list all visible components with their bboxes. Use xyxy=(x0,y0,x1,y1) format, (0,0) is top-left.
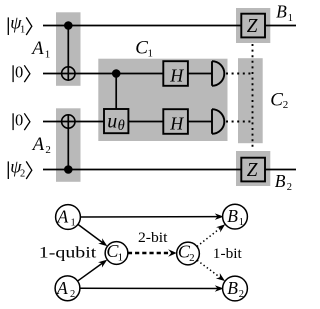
svg-text:0: 0 xyxy=(15,110,23,129)
svg-text:θ: θ xyxy=(118,118,125,134)
CNOT A1: vertical wire xyxy=(67,26,69,81)
svg-text:2: 2 xyxy=(70,289,75,300)
measurement q3 xyxy=(212,109,224,134)
svg-text:2: 2 xyxy=(45,144,51,156)
label B1 xyxy=(276,1,293,24)
controlled-u: control dot q2 xyxy=(112,69,121,78)
wire q3 xyxy=(43,121,212,123)
CNOT A2: target q3 xyxy=(62,115,75,128)
edge A1->B1 xyxy=(80,213,223,220)
CNOT A2: control dot q4 xyxy=(64,165,73,174)
svg-text:B: B xyxy=(227,278,238,298)
node B2 xyxy=(223,276,248,301)
svg-text:C: C xyxy=(135,38,148,59)
gate Z bottom xyxy=(241,158,265,182)
svg-text:u: u xyxy=(107,111,117,133)
ket |0> q2 xyxy=(13,62,30,82)
gate u_theta xyxy=(104,109,128,134)
svg-text:2: 2 xyxy=(189,252,195,264)
gate H q2 xyxy=(163,61,188,86)
edge A2->B2 xyxy=(80,285,224,292)
node C2 xyxy=(177,241,200,265)
box A1 (shaded region) xyxy=(56,12,81,86)
svg-text:H: H xyxy=(169,113,184,133)
CNOT A1: target q2 xyxy=(62,67,75,80)
label A1 xyxy=(30,39,50,60)
label C1 above box xyxy=(135,38,153,60)
svg-text:1: 1 xyxy=(288,13,293,24)
edge A2->C1 xyxy=(78,260,108,281)
svg-text:1: 1 xyxy=(20,25,25,36)
svg-text:1-bit: 1-bit xyxy=(213,246,243,262)
svg-text:1-qubit: 1-qubit xyxy=(39,245,97,262)
svg-text:2: 2 xyxy=(239,289,244,300)
svg-text:2: 2 xyxy=(283,99,289,111)
svg-text:A: A xyxy=(30,39,44,59)
ket |psi2> xyxy=(8,157,32,180)
svg-text:2: 2 xyxy=(20,169,25,180)
shaded pad of gate Z bottom xyxy=(236,151,270,186)
node B1 xyxy=(223,204,248,229)
edge C2->B1 (dotted) xyxy=(197,224,225,246)
label C2 right of strip xyxy=(270,89,288,111)
svg-text:A: A xyxy=(31,135,45,155)
svg-text:B: B xyxy=(227,206,238,226)
svg-text:0: 0 xyxy=(15,62,23,81)
svg-text:1: 1 xyxy=(148,47,154,59)
node A1 xyxy=(56,205,81,230)
svg-text:1: 1 xyxy=(239,217,244,228)
box C2 (shaded region) xyxy=(238,58,263,143)
gate Z top xyxy=(241,14,265,38)
controlled-u: vertical wire xyxy=(115,74,117,110)
svg-text:A: A xyxy=(56,278,68,298)
wire q2 xyxy=(43,73,212,75)
svg-text:B: B xyxy=(275,171,286,191)
svg-text:2: 2 xyxy=(287,182,292,193)
classical dotted vertical wire xyxy=(252,44,254,150)
svg-text:1: 1 xyxy=(71,218,76,229)
svg-text:1: 1 xyxy=(45,48,51,60)
edge C2->B2 (dotted) xyxy=(197,260,225,281)
edge C1->C2 (2-bit, thick dashed) xyxy=(128,249,177,257)
CNOT A1: control dot q1 xyxy=(64,21,73,30)
svg-text:1: 1 xyxy=(118,251,124,263)
classical dotted wire q2 to C2 xyxy=(226,73,253,75)
node A2 xyxy=(55,276,80,301)
svg-text:Z: Z xyxy=(247,159,258,181)
ket |0> q3 xyxy=(13,110,30,130)
ket |psi1> xyxy=(8,13,32,36)
svg-text:Z: Z xyxy=(247,15,258,37)
shaded pad of gate Z top xyxy=(236,8,270,43)
box A2 (shaded region) xyxy=(56,108,81,182)
measurement q2 xyxy=(212,61,224,86)
label B2 xyxy=(275,171,292,193)
svg-text:A: A xyxy=(57,207,69,227)
box C1 (shaded region) xyxy=(98,59,227,141)
svg-text:H: H xyxy=(169,65,184,85)
svg-text:C: C xyxy=(270,89,283,110)
gate H q3 xyxy=(163,109,188,134)
node C1 xyxy=(105,241,128,265)
classical dotted wire q3 to C2 xyxy=(226,121,253,123)
wire q1 xyxy=(43,25,296,27)
edge A1->C1 xyxy=(78,224,107,246)
CNOT A2: vertical wire xyxy=(67,115,69,170)
label A2 xyxy=(31,135,51,156)
svg-text:B: B xyxy=(276,1,287,21)
svg-text:2-bit: 2-bit xyxy=(138,230,168,246)
wire q4 xyxy=(43,169,296,171)
